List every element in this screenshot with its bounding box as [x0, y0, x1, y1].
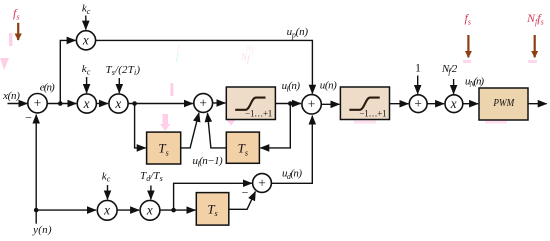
svg-text:+: +: [34, 96, 42, 111]
svg-text:+: +: [414, 96, 422, 111]
svg-text:x: x: [83, 96, 90, 111]
svg-text:ud(n): ud(n): [282, 168, 302, 181]
svg-text:x: x: [146, 203, 153, 218]
svg-text:x: x: [103, 203, 110, 218]
svg-text:x(n): x(n): [2, 90, 20, 102]
svg-text:Nf/2: Nf/2: [441, 63, 458, 76]
svg-text:Td/Ts: Td/Ts: [140, 170, 163, 183]
svg-text:PWM: PWM: [493, 98, 516, 109]
svg-text:y(n): y(n): [32, 224, 52, 236]
svg-text:u(n): u(n): [320, 80, 337, 92]
svg-text:−: −: [25, 111, 32, 125]
svg-text:ui(n−1): ui(n−1): [193, 155, 224, 168]
svg-text:−: −: [242, 185, 249, 199]
svg-text:+: +: [199, 95, 207, 110]
svg-text:up(n): up(n): [287, 26, 309, 39]
svg-text:−1…+1: −1…+1: [359, 109, 386, 119]
svg-text:x: x: [114, 96, 121, 111]
svg-text:x: x: [82, 33, 89, 48]
svg-text:x: x: [450, 96, 457, 111]
svg-text:+: +: [258, 175, 266, 190]
svg-text:uN(n): uN(n): [465, 75, 484, 88]
svg-text:+: +: [308, 97, 316, 112]
svg-text:ui(n): ui(n): [282, 80, 301, 93]
svg-text:e(n): e(n): [40, 81, 55, 93]
svg-text:1: 1: [415, 61, 421, 75]
svg-text:−1…+1: −1…+1: [245, 109, 272, 119]
